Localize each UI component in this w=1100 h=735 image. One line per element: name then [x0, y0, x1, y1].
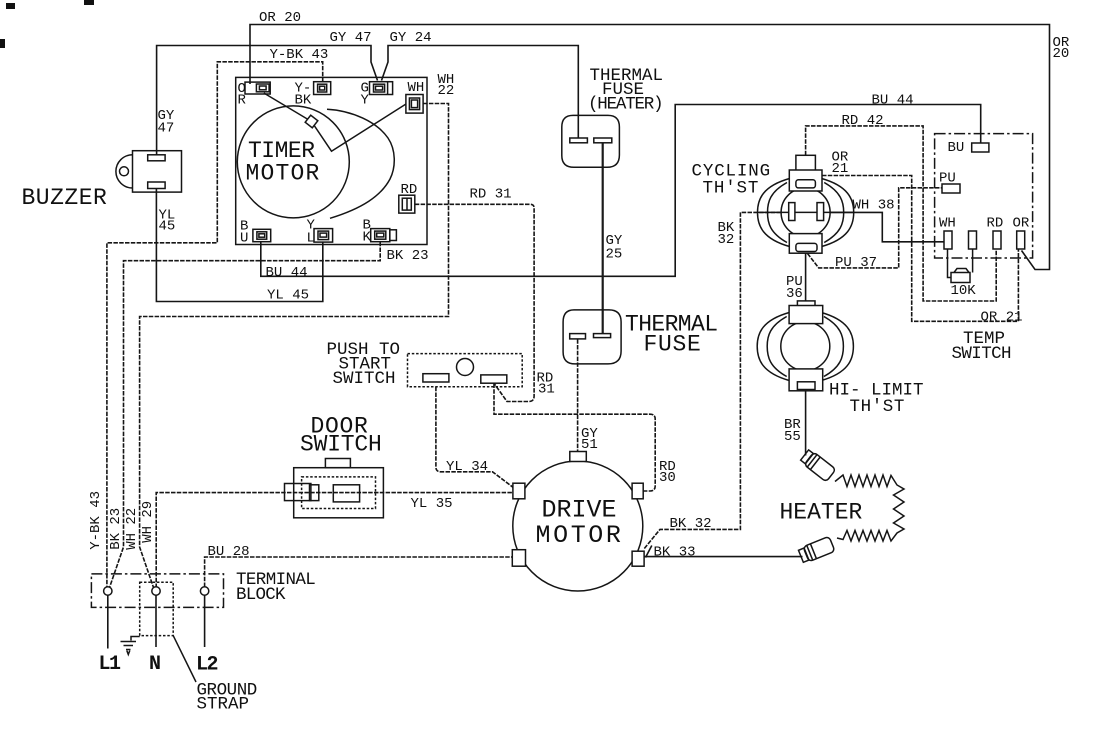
- svg-text:YL 35: YL 35: [411, 496, 453, 512]
- svg-text:22: 22: [438, 83, 455, 99]
- svg-text:L2: L2: [196, 654, 218, 677]
- svg-text:BUZZER: BUZZER: [22, 185, 108, 211]
- svg-text:R: R: [238, 93, 247, 109]
- svg-text:(HEATER): (HEATER): [588, 95, 662, 115]
- svg-text:HEATER: HEATER: [780, 500, 863, 526]
- svg-text:32: 32: [718, 232, 735, 248]
- svg-text:RD 42: RD 42: [842, 113, 884, 129]
- svg-text:RD 31: RD 31: [470, 187, 512, 203]
- svg-text:BU: BU: [948, 140, 965, 156]
- svg-text:L1: L1: [99, 653, 122, 676]
- svg-text:BU 28: BU 28: [208, 544, 250, 560]
- svg-text:BK 23: BK 23: [108, 508, 124, 550]
- svg-text:Y-BK 43: Y-BK 43: [270, 47, 329, 63]
- svg-text:31: 31: [538, 382, 555, 398]
- svg-text:GY 24: GY 24: [390, 30, 432, 46]
- svg-text:BK 33: BK 33: [654, 545, 696, 561]
- svg-text:21: 21: [832, 161, 849, 177]
- svg-text:WH 29: WH 29: [140, 501, 156, 543]
- svg-text:BU 44: BU 44: [872, 93, 914, 109]
- svg-text:N: N: [149, 653, 160, 676]
- svg-text:WH 22: WH 22: [124, 508, 140, 550]
- svg-text:47: 47: [158, 121, 175, 137]
- svg-text:K: K: [363, 230, 372, 246]
- svg-text:30: 30: [659, 470, 676, 486]
- svg-text:OR 20: OR 20: [259, 10, 301, 26]
- svg-text:TH'ST: TH'ST: [850, 397, 906, 417]
- svg-text:WH 38: WH 38: [853, 198, 895, 214]
- svg-text:BLOCK: BLOCK: [236, 585, 286, 605]
- svg-text:OR: OR: [1013, 216, 1030, 232]
- svg-text:YL 34: YL 34: [446, 459, 488, 475]
- svg-text:RD: RD: [401, 182, 418, 198]
- svg-text:Y: Y: [361, 93, 370, 109]
- svg-text:MOTOR: MOTOR: [246, 161, 321, 187]
- svg-text:51: 51: [581, 437, 598, 453]
- svg-text:U: U: [240, 231, 248, 247]
- svg-text:TH'ST: TH'ST: [703, 179, 760, 199]
- svg-text:SWITCH: SWITCH: [952, 344, 1012, 364]
- svg-text:OR 21: OR 21: [981, 310, 1023, 326]
- svg-text:WH: WH: [939, 216, 956, 232]
- svg-text:BK 32: BK 32: [670, 516, 712, 532]
- svg-text:FUSE: FUSE: [644, 332, 702, 358]
- svg-text:PU: PU: [939, 171, 956, 187]
- svg-text:36: 36: [786, 286, 803, 302]
- svg-text:YL 45: YL 45: [267, 288, 309, 304]
- svg-text:BK 23: BK 23: [387, 248, 429, 264]
- svg-text:20: 20: [1053, 46, 1070, 62]
- svg-text:45: 45: [159, 219, 176, 235]
- svg-text:PU 37: PU 37: [835, 255, 877, 271]
- svg-text:BU 44: BU 44: [266, 265, 308, 281]
- svg-text:Y-BK 43: Y-BK 43: [88, 491, 104, 550]
- svg-text:STRAP: STRAP: [197, 695, 250, 715]
- svg-text:MOTOR: MOTOR: [536, 521, 624, 550]
- svg-text:GY 47: GY 47: [330, 30, 372, 46]
- svg-text:55: 55: [784, 429, 801, 445]
- svg-text:BK: BK: [295, 93, 312, 109]
- svg-text:25: 25: [606, 247, 623, 263]
- svg-text:RD: RD: [987, 216, 1004, 232]
- svg-text:SWITCH: SWITCH: [300, 432, 382, 458]
- svg-text:WH: WH: [408, 80, 425, 96]
- svg-text:SWITCH: SWITCH: [333, 369, 396, 389]
- svg-text:10K: 10K: [951, 283, 977, 299]
- svg-text:L: L: [307, 231, 315, 247]
